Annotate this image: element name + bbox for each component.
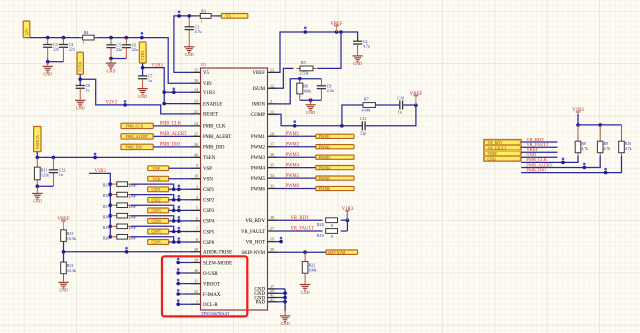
svg-text:R5: R5 — [301, 60, 306, 65]
wire net COMP — [268, 103, 418, 127]
ground under C3/C4 — [43, 62, 53, 77]
svg-text:PMB_DIO: PMB_DIO — [203, 146, 225, 151]
wire net PMB_ALERT — [153, 135, 200, 137]
wire net SKIP-NVM — [268, 250, 327, 254]
resistor R17 (DNP) — [103, 203, 137, 209]
svg-text:CSP2: CSP2 — [203, 199, 215, 204]
svg-text:11: 11 — [270, 109, 274, 114]
resistor R21 — [61, 262, 76, 274]
svg-text:30: 30 — [194, 268, 198, 273]
svg-text:V1R3: V1R3 — [152, 64, 164, 69]
wire net IMON — [268, 77, 322, 104]
wire net GND pins — [268, 289, 287, 311]
svg-text:2: 2 — [270, 99, 272, 104]
svg-text:VR_FAULT: VR_FAULT — [488, 146, 507, 150]
wire net ISUM — [268, 32, 342, 88]
port VSP — [148, 166, 169, 171]
resistor R16 (DNP) — [103, 192, 137, 198]
svg-text:PAD: PAD — [256, 301, 266, 306]
svg-text:PWM1: PWM1 — [251, 135, 266, 140]
svg-text:VSP: VSP — [153, 166, 161, 171]
wire net PMB_DIO (right) — [521, 156, 621, 175]
svg-text:CSP5: CSP5 — [203, 230, 215, 235]
svg-text:VREF: VREF — [252, 71, 265, 76]
svg-text:PMB_CLK: PMB_CLK — [203, 125, 226, 130]
svg-text:1u: 1u — [148, 78, 152, 83]
wire net VR_FAULT — [268, 230, 323, 232]
svg-text:PMB_CLK: PMB_CLK — [126, 125, 144, 129]
port CSP5 — [148, 229, 169, 234]
svg-text:VBOOT: VBOOT — [203, 282, 220, 287]
svg-text:4: 4 — [196, 195, 198, 200]
port SKIP-NVM — [326, 250, 358, 255]
power port V1R3 (rail right) — [572, 108, 584, 114]
capacitor C6 — [122, 38, 138, 59]
svg-text:PMB_DIO: PMB_DIO — [160, 143, 181, 148]
svg-text:VSN: VSN — [153, 176, 161, 181]
svg-text:32: 32 — [194, 289, 198, 294]
svg-text:13: 13 — [270, 67, 274, 72]
svg-text:PMB_CLK: PMB_CLK — [160, 122, 182, 127]
resistor R11 — [34, 157, 49, 186]
wire net CSP5 — [109, 225, 201, 234]
wire net VSEN1A/TSEN — [36, 152, 201, 160]
svg-text:C11: C11 — [360, 116, 367, 121]
svg-text:39: 39 — [270, 247, 274, 252]
svg-text:C10: C10 — [397, 95, 404, 100]
svg-text:41: 41 — [270, 297, 274, 302]
port CSP6 — [148, 240, 169, 245]
resistor R22 — [304, 252, 306, 262]
wire net PMB_DIO — [153, 146, 200, 148]
svg-text:PWM4: PWM4 — [286, 163, 300, 168]
port CSP4 — [148, 219, 169, 224]
capacitor C11 — [360, 116, 367, 135]
svg-text:100k: 100k — [309, 268, 317, 273]
ground under C2 — [352, 55, 362, 66]
wire net PMB_ALERT (right) — [521, 156, 600, 170]
wire net GND (right) — [521, 156, 557, 158]
svg-text:GND: GND — [59, 288, 68, 293]
svg-text:PWM6: PWM6 — [286, 184, 300, 189]
svg-text:VR_HOT: VR_HOT — [246, 240, 265, 245]
svg-text:GND: GND — [185, 52, 194, 57]
resistor R19 (DNP) — [103, 224, 137, 230]
port VSN — [148, 176, 169, 181]
wire R6/C9 bottom join — [300, 98, 322, 102]
wire C3/C4 join — [46, 60, 64, 64]
svg-text:0: 0 — [331, 223, 333, 228]
power port VREF (rail) — [330, 22, 343, 32]
svg-text:R18: R18 — [103, 215, 109, 219]
svg-text:U1: U1 — [201, 62, 206, 67]
svg-text:1: 1 — [196, 299, 198, 304]
wire net CSP3 — [109, 203, 201, 212]
svg-text:12: 12 — [270, 83, 274, 88]
wire net VR_FAULT (right) — [521, 146, 557, 148]
wire net PWM1 — [268, 135, 316, 137]
svg-text:CSP4: CSP4 — [152, 219, 161, 224]
svg-text:1: 1 — [200, 19, 202, 24]
svg-text:PWM2: PWM2 — [319, 144, 331, 149]
svg-text:CSP1: CSP1 — [203, 188, 215, 193]
svg-text:DNP: DNP — [128, 184, 137, 188]
svg-text:3: 3 — [196, 184, 198, 189]
svg-text:19: 19 — [270, 237, 274, 242]
svg-text:22u: 22u — [116, 47, 122, 52]
svg-text:VSN: VSN — [203, 178, 213, 183]
svg-text:9: 9 — [196, 163, 198, 168]
capacitor C2 — [353, 39, 370, 49]
IC right pin names/numbers/stubs — [241, 67, 278, 305]
svg-text:V1R3: V1R3 — [140, 51, 145, 61]
resistor R10 — [619, 125, 632, 156]
svg-text:4.7k: 4.7k — [604, 147, 611, 151]
svg-text:COMP: COMP — [251, 113, 265, 118]
wire net +12V rail — [27, 32, 201, 83]
svg-text:DNP: DNP — [128, 205, 137, 209]
svg-text:2.2n: 2.2n — [327, 88, 334, 93]
svg-text:40: 40 — [194, 152, 198, 157]
svg-text:4.7u: 4.7u — [363, 43, 370, 48]
port V1R3 — [139, 42, 146, 63]
svg-text:R7: R7 — [364, 97, 369, 102]
wire net VR_RDY — [268, 211, 350, 231]
svg-text:PMB_DIO: PMB_DIO — [526, 167, 547, 172]
wire net PMB_CLK (right) — [521, 156, 578, 165]
capacitor C4 — [59, 38, 75, 62]
svg-text:R19: R19 — [317, 233, 324, 238]
wire net VR_RDY (right) — [521, 141, 557, 143]
power port VREF (comp) — [410, 92, 423, 105]
svg-text:R15: R15 — [103, 184, 109, 188]
op-amp U1 TPS53667RSAT (controller IC) — [201, 62, 268, 316]
svg-text:GND: GND — [138, 94, 147, 99]
wire net VREF rail — [268, 27, 358, 73]
svg-text:GND: GND — [488, 157, 496, 161]
svg-text:PWM4: PWM4 — [251, 166, 266, 171]
resistor R3 — [197, 8, 215, 23]
wire net VSP — [169, 167, 201, 169]
svg-text:10: 10 — [194, 174, 198, 179]
svg-text:CSP4: CSP4 — [203, 220, 215, 225]
svg-text:35: 35 — [270, 163, 274, 168]
ground under GND pins — [280, 311, 290, 326]
svg-text:34: 34 — [270, 173, 274, 178]
svg-text:36: 36 — [270, 152, 274, 157]
svg-text:CSP6: CSP6 — [203, 241, 215, 246]
svg-text:29: 29 — [194, 258, 198, 263]
wire net VREF (right) — [521, 151, 557, 153]
ground under R21 — [58, 281, 68, 293]
wire net CSP4 — [109, 214, 201, 223]
svg-text:5VSB: 5VSB — [78, 62, 83, 72]
ground under R11 — [32, 186, 42, 204]
svg-text:ISUM: ISUM — [253, 87, 266, 92]
wire pin stub SLEW — [176, 258, 200, 265]
port CSP1 — [148, 187, 169, 192]
svg-text:CSP2: CSP2 — [152, 198, 161, 203]
port PMB_CLK — [121, 123, 153, 128]
ground under C1 — [184, 46, 194, 58]
port CSP3 — [148, 208, 169, 213]
svg-text:PWM4: PWM4 — [319, 165, 331, 170]
svg-text:121k: 121k — [41, 173, 49, 178]
svg-text:R10: R10 — [625, 142, 631, 146]
resistor R15 (DNP) — [103, 182, 137, 188]
svg-text:OCL-R: OCL-R — [203, 303, 218, 308]
svg-text:8: 8 — [196, 237, 198, 242]
wire V1R3 down to rail — [577, 114, 579, 125]
wire net V3V3 — [78, 74, 200, 114]
svg-text:RESET: RESET — [203, 113, 218, 118]
port PWM2 — [316, 144, 354, 149]
svg-text:SKIP-NVM: SKIP-NVM — [328, 251, 347, 255]
power port V1R3 (pullup) — [342, 207, 354, 220]
svg-text:GND: GND — [301, 290, 310, 295]
resistor R7 — [362, 97, 376, 113]
svg-text:1: 1 — [83, 40, 85, 45]
port 12V — [23, 21, 30, 38]
resistor R5 — [297, 60, 317, 75]
wire net V1R3 pullup rail — [576, 123, 621, 127]
resistor R19 — [317, 229, 338, 239]
svg-text:PWM2: PWM2 — [251, 146, 266, 151]
capacitor C5 — [106, 38, 122, 59]
svg-text:PWM1: PWM1 — [286, 132, 300, 137]
wire C5/C6 join — [109, 57, 126, 61]
svg-text:1n: 1n — [59, 172, 63, 177]
wire pin stub OCLR — [176, 299, 200, 306]
svg-text:VSEN1A: VSEN1A — [36, 135, 40, 149]
svg-text:23: 23 — [194, 99, 198, 104]
port group (VR_RDY/VR_FAULT/VREF/GND) — [484, 139, 522, 161]
svg-text:DNP: DNP — [128, 195, 137, 199]
svg-text:GND: GND — [43, 72, 52, 77]
svg-text:DNP: DNP — [128, 226, 137, 230]
svg-text:16: 16 — [194, 78, 198, 83]
svg-text:VR_FAULT: VR_FAULT — [291, 227, 314, 232]
port PWM5 — [316, 176, 354, 181]
svg-text:22p: 22p — [360, 130, 366, 135]
svg-text:PWM6: PWM6 — [251, 187, 266, 192]
svg-text:GND: GND — [281, 321, 290, 326]
svg-text:DNP: DNP — [128, 216, 137, 220]
resistor R18 — [317, 218, 338, 228]
capacitor C12 — [52, 157, 54, 186]
svg-text:14: 14 — [194, 87, 198, 92]
svg-text:CSP6: CSP6 — [152, 240, 161, 245]
wire net V5 — [174, 11, 221, 73]
wire net PMB_CLK — [153, 125, 200, 127]
svg-text:V3V3: V3V3 — [106, 100, 118, 105]
svg-text:GND: GND — [353, 61, 362, 66]
svg-text:1n: 1n — [398, 110, 402, 115]
svg-text:4.64k: 4.64k — [362, 107, 371, 112]
wire net PWM6 — [268, 188, 316, 190]
port PWM3 — [316, 155, 354, 160]
svg-text:V5: V5 — [226, 14, 231, 19]
svg-text:2.55k: 2.55k — [300, 71, 309, 76]
svg-text:25: 25 — [194, 131, 198, 136]
svg-text:ENABLE: ENABLE — [203, 102, 222, 107]
svg-text:100k: 100k — [303, 88, 311, 93]
port PWM1 — [316, 134, 354, 139]
ground under R22 — [300, 283, 310, 295]
svg-text:PMB_ALERT: PMB_ALERT — [203, 135, 231, 140]
capacitor C9 — [320, 79, 322, 86]
ground under C8 — [75, 99, 85, 111]
wire net V1R3 DNP bus — [89, 173, 110, 236]
capacitor C1 — [188, 16, 190, 46]
svg-text:5: 5 — [196, 205, 198, 210]
svg-text:22u: 22u — [132, 47, 138, 52]
wire net PWM4 — [268, 167, 316, 169]
wire net PWM2 — [268, 146, 316, 148]
svg-text:SLEW-MODE: SLEW-MODE — [203, 261, 232, 266]
capacitor C7 — [138, 74, 153, 84]
resistor R9 — [597, 125, 610, 156]
svg-text:GND: GND — [306, 110, 315, 115]
svg-text:PWM2: PWM2 — [286, 142, 300, 147]
svg-text:17: 17 — [270, 142, 274, 147]
resistor R13 — [61, 230, 76, 242]
capacitor C10 — [397, 95, 404, 114]
svg-text:V5: V5 — [203, 71, 210, 76]
svg-text:PMB_ALERT: PMB_ALERT — [126, 135, 149, 139]
svg-text:CSP5: CSP5 — [152, 229, 161, 234]
port VSEN1A — [34, 127, 41, 152]
port PWM6 — [316, 186, 354, 191]
wire pin stub VBOOT — [176, 279, 200, 286]
wire net CSP6 — [109, 235, 201, 244]
wire net VSN — [169, 178, 201, 180]
svg-text:26: 26 — [194, 142, 198, 147]
svg-text:0: 0 — [331, 234, 333, 239]
selection rectangle (red) — [162, 256, 247, 316]
svg-text:PWM6: PWM6 — [319, 186, 331, 191]
svg-text:1u: 1u — [86, 88, 90, 93]
wire pin stub OUSR — [176, 268, 200, 275]
svg-text:6: 6 — [196, 216, 198, 221]
svg-text:PMB_DIO: PMB_DIO — [126, 146, 143, 150]
svg-text:PWM5: PWM5 — [286, 174, 300, 179]
svg-text:R3: R3 — [201, 8, 206, 13]
svg-text:VR_FAULT: VR_FAULT — [241, 230, 265, 235]
svg-text:24: 24 — [194, 121, 198, 126]
svg-text:28: 28 — [194, 247, 198, 252]
svg-text:PWM3: PWM3 — [251, 156, 266, 161]
svg-text:4.7k: 4.7k — [581, 147, 588, 151]
resistor R18 (DNP) — [103, 213, 137, 219]
wire pin stub VR_HOT — [268, 237, 283, 244]
svg-text:R16: R16 — [103, 194, 109, 198]
svg-text:22u: 22u — [69, 47, 75, 52]
wire net PWM5 — [268, 177, 316, 179]
svg-text:GND: GND — [33, 199, 42, 204]
wire net PWM3 — [268, 156, 316, 158]
resistor R4 — [79, 30, 97, 45]
svg-text:VR_RDY: VR_RDY — [488, 141, 503, 145]
port PMB_ALERT — [121, 134, 153, 139]
svg-text:24.3k: 24.3k — [67, 268, 76, 273]
svg-text:4.7k: 4.7k — [625, 147, 632, 151]
port 5VSB — [77, 52, 83, 74]
svg-text:V1R3: V1R3 — [95, 169, 107, 174]
wire pin stub FIMAX — [176, 289, 200, 296]
svg-text:PWM3: PWM3 — [286, 153, 300, 158]
svg-text:R18: R18 — [317, 222, 324, 227]
svg-text:O-USR: O-USR — [203, 272, 218, 277]
port PWM4 — [316, 165, 354, 170]
svg-text:27: 27 — [270, 226, 274, 231]
svg-text:22u: 22u — [53, 47, 59, 52]
svg-text:R19: R19 — [103, 226, 109, 230]
svg-text:15: 15 — [194, 67, 198, 72]
svg-text:VREF: VREF — [488, 152, 498, 156]
wire net ADDR-TRISE — [62, 241, 201, 262]
svg-text:PMB_ALERT: PMB_ALERT — [160, 132, 187, 137]
svg-text:VR_RDY: VR_RDY — [245, 219, 265, 224]
svg-text:VR_RDY: VR_RDY — [291, 216, 310, 221]
svg-text:R8: R8 — [581, 142, 586, 146]
svg-text:7: 7 — [196, 227, 198, 232]
svg-text:GND: GND — [107, 68, 116, 73]
svg-text:CSP1: CSP1 — [152, 187, 161, 192]
svg-text:18: 18 — [270, 131, 274, 136]
capacitor C3 — [43, 38, 59, 62]
svg-text:V1R3: V1R3 — [203, 91, 215, 96]
ground under R6/C9 — [305, 100, 315, 115]
port CSP2 — [148, 197, 169, 202]
svg-text:31: 31 — [194, 279, 198, 284]
power port VREF (divider) — [57, 217, 70, 230]
port V5 — [221, 14, 248, 19]
resistor R20 (DNP) — [103, 235, 137, 241]
svg-text:21: 21 — [194, 109, 198, 114]
wire net CSP2 — [109, 193, 201, 202]
svg-text:F-IMAX: F-IMAX — [203, 293, 221, 298]
wire R11/C12 join — [36, 184, 54, 188]
svg-text:TSEN: TSEN — [203, 156, 216, 161]
svg-text:CSP3: CSP3 — [152, 208, 161, 213]
svg-text:PWM3: PWM3 — [319, 155, 331, 160]
svg-text:PWM5: PWM5 — [251, 177, 266, 182]
svg-text:4.7u: 4.7u — [195, 29, 202, 34]
IC left pin names/numbers/stubs — [191, 67, 233, 308]
svg-text:R4: R4 — [84, 30, 89, 35]
svg-text:12V: 12V — [24, 28, 29, 35]
svg-text:ADDR-TRISE: ADDR-TRISE — [203, 251, 232, 256]
wire net V1R3 left — [141, 63, 201, 105]
ground under C5/C6 — [106, 59, 116, 74]
svg-text:GND: GND — [76, 106, 85, 111]
svg-text:VSP: VSP — [203, 167, 212, 172]
resistor R8 — [575, 125, 588, 156]
svg-text:VIN: VIN — [203, 82, 212, 87]
ground under C7 — [137, 87, 147, 99]
svg-text:33: 33 — [270, 184, 274, 189]
svg-text:R17: R17 — [103, 205, 109, 209]
svg-text:DNP: DNP — [128, 237, 137, 241]
port PMB_DIO — [121, 144, 153, 149]
capacitor C8 — [76, 83, 91, 93]
wire net CSP1 — [109, 182, 201, 191]
svg-text:IMON: IMON — [252, 103, 266, 108]
svg-text:16.5k: 16.5k — [67, 236, 76, 241]
svg-text:38: 38 — [270, 215, 274, 220]
svg-text:R20: R20 — [103, 236, 109, 240]
